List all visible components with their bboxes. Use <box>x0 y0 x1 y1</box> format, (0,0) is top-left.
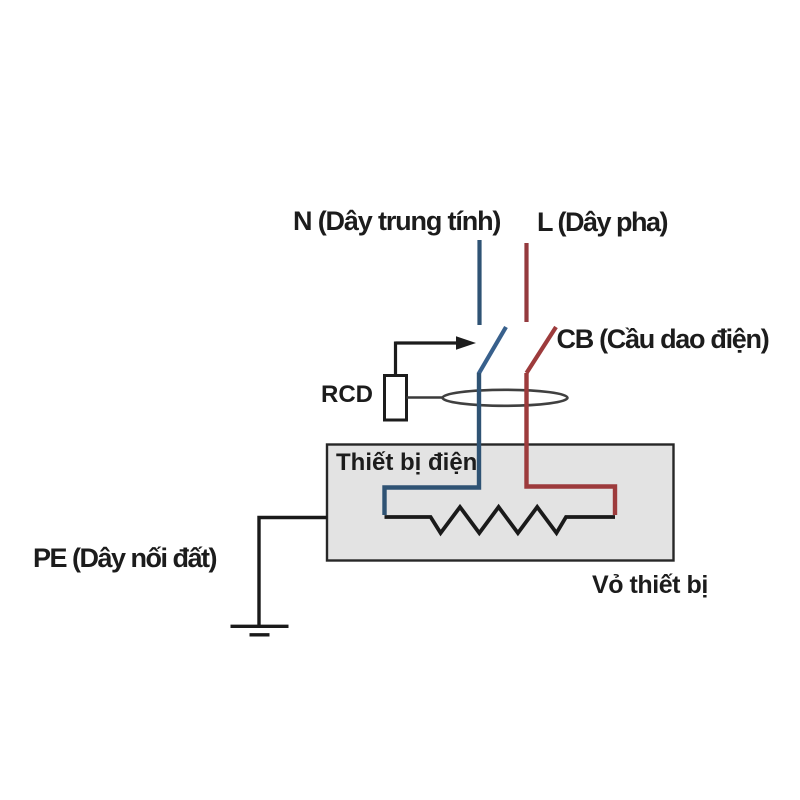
wire N lower (blue) into load <box>385 373 480 515</box>
resistor (load element) zigzag <box>385 507 616 533</box>
ground bar long <box>231 625 289 628</box>
switch contact N (blue blade) <box>479 327 507 374</box>
svg-text:N (Dây trung tính): N (Dây trung tính) <box>293 206 500 236</box>
wire L lower (red) into load <box>527 373 616 515</box>
svg-text:Vỏ thiết bị: Vỏ thiết bị <box>592 571 708 599</box>
RCD body box <box>385 376 407 421</box>
wire L top vertical (red) <box>524 243 528 322</box>
svg-text:RCD: RCD <box>321 381 373 408</box>
switch contact L (red blade, CB) <box>527 327 557 373</box>
wire N top vertical (blue) <box>477 240 481 325</box>
svg-text:Thiết bị điện: Thiết bị điện <box>336 449 477 476</box>
device enclosure box (Thiết bị điện) <box>327 445 674 561</box>
svg-text:L (Dây pha): L (Dây pha) <box>537 207 668 237</box>
svg-text:PE (Dây nối đất): PE (Dây nối đất) <box>33 543 217 573</box>
wire PE from enclosure to ground <box>259 518 327 626</box>
wire arrow-to-RCD vertical <box>394 342 397 377</box>
ground bar short <box>250 633 270 636</box>
RCD trip arrow (horizontal + head) <box>396 341 461 344</box>
current transformer toroid (ellipse) <box>443 390 568 406</box>
svg-text:CB (Cầu dao điện): CB (Cầu dao điện) <box>557 324 769 354</box>
wire RCD to current transformer <box>407 396 445 399</box>
